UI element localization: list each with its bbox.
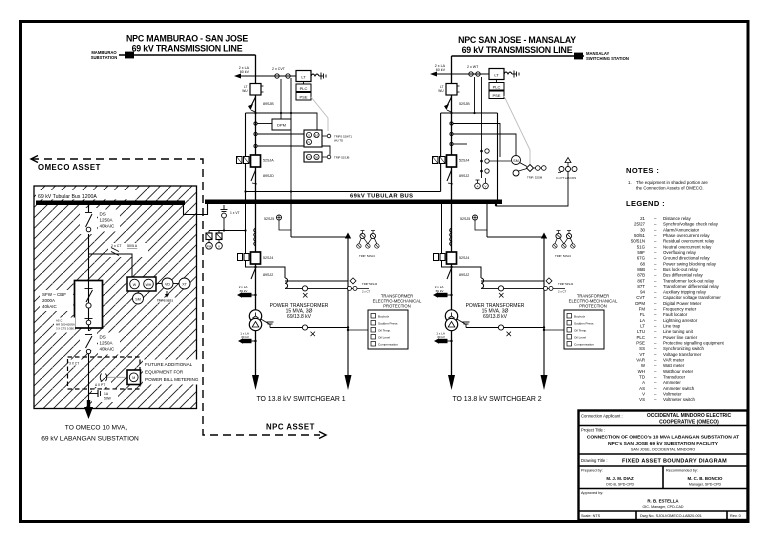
- svg-text:69/13.8 kV: 69/13.8 kV: [483, 314, 508, 320]
- svg-text:NPC's SAN JOSE 69 kV SUBSTATIO: NPC's SAN JOSE 69 kV SUBSTATION FACILITY: [608, 441, 719, 447]
- svg-text:WU: WU: [242, 89, 248, 93]
- CT coil on tie bay1: [285, 278, 288, 288]
- meter box pair bay2 lower: [434, 254, 439, 261]
- node: bay2 junction y113: [450, 112, 452, 114]
- svg-text:86T: 86T: [637, 278, 645, 283]
- disconnect switch 89SJA bay1: [251, 170, 274, 184]
- label: SFW-CBF rating: [40, 290, 73, 311]
- svg-text:VAR meter: VAR meter: [663, 358, 685, 363]
- CT on secondary run bay2: [498, 286, 503, 298]
- wire: inter-bay tie above bus: [246, 191, 441, 193]
- svg-text:Voltmeter switch: Voltmeter switch: [663, 397, 696, 402]
- circuit breaker 52SJA bay1: [251, 155, 275, 167]
- svg-text:A: A: [642, 380, 645, 385]
- wire: OMECO feeder vertical lower: [88, 328, 90, 404]
- svg-text:Line tuning unit: Line tuning unit: [663, 329, 694, 334]
- svg-text:87B: 87B: [637, 273, 645, 278]
- wire: bay1 link to protection branch: [291, 236, 348, 238]
- svg-text:Drawing Title :: Drawing Title :: [581, 458, 608, 463]
- wire: tap2 to relay: [257, 133, 304, 135]
- svg-text:Prepared by:: Prepared by:: [581, 469, 603, 473]
- svg-text:Frequency meter: Frequency meter: [663, 307, 697, 312]
- voltmeter V: [216, 231, 223, 250]
- svg-text:1250A: 1250A: [100, 218, 113, 223]
- node: bay2 tap 1: [450, 122, 453, 125]
- svg-text:NPC ASSET: NPC ASSET: [266, 423, 315, 432]
- svg-text:MR 300-600/5A: MR 300-600/5A: [56, 323, 75, 327]
- svg-text:30 kV: 30 kV: [437, 335, 446, 339]
- wave trap WT box bay1: [242, 84, 263, 96]
- svg-text:SUBSTATION: SUBSTATION: [91, 55, 118, 60]
- svg-text:3 x PT with FDS: 3 x PT with FDS: [556, 176, 576, 180]
- svg-text:PSE: PSE: [299, 94, 307, 99]
- wave trap WT box bay2: [438, 84, 459, 96]
- svg-text:21: 21: [307, 134, 311, 138]
- svg-text:25/27: 25/27: [634, 222, 646, 227]
- svg-text:Phase overcurrent relay: Phase overcurrent relay: [663, 233, 710, 238]
- wire: OMECO bus link to NPC bus: [184, 204, 208, 215]
- bus: 69kV tubular bus: [205, 200, 502, 205]
- wire: bay1 protection branch vertical: [347, 237, 349, 376]
- circuit breaker 52SJ4 bay2: [447, 252, 457, 264]
- CT pair on branch bay1: [347, 278, 378, 294]
- svg-text:TRIP 52SJ4: TRIP 52SJ4: [362, 282, 377, 286]
- PLC box bay1: [296, 84, 311, 92]
- svg-text:NPC MAMBURAO - SAN JOSE: NPC MAMBURAO - SAN JOSE: [126, 34, 248, 44]
- PSE box bay1: [296, 82, 311, 101]
- arrow: to OMECO Labangan substation: [84, 400, 93, 419]
- svg-text:DS: DS: [100, 335, 106, 340]
- svg-text:SWITCHING STATION: SWITCHING STATION: [586, 56, 629, 61]
- svg-text:XT: XT: [182, 282, 187, 286]
- surge arrester 1xLA 30kV bay2: [434, 331, 453, 343]
- svg-text:89SJB: 89SJB: [263, 102, 274, 106]
- surge arrester 2xLA bay1: [237, 285, 257, 298]
- svg-text:WH: WH: [146, 283, 152, 287]
- svg-text:OCCIDENTAL MINDORO ELECTRIC: OCCIDENTAL MINDORO ELECTRIC: [647, 413, 732, 419]
- power transformer T1: [249, 310, 261, 322]
- svg-text:50/51N: 50/51N: [631, 239, 645, 244]
- CVT pair bay2 (2 x WT): [467, 65, 482, 146]
- svg-text:TRIPS 52S1: TRIPS 52S1: [157, 299, 173, 303]
- svg-text:2 x CT: 2 x CT: [111, 244, 122, 248]
- svg-text:NPC SAN JOSE - MANSALAY: NPC SAN JOSE - MANSALAY: [458, 35, 576, 45]
- svg-text:Bucholz: Bucholz: [574, 315, 585, 319]
- svg-text:Distance relay: Distance relay: [663, 216, 692, 221]
- svg-text:DPM: DPM: [277, 123, 286, 128]
- wire: Mansalay 69kV line: [452, 55, 585, 57]
- title block: approved by cell: [581, 491, 684, 509]
- svg-text:2000A: 2000A: [42, 298, 55, 303]
- transformer mechanical protection box bay2: [543, 294, 618, 350]
- svg-text:TD: TD: [639, 375, 645, 380]
- svg-text:89SJ2: 89SJ2: [459, 174, 469, 178]
- disconnect switch DS 1250A upper: [80, 205, 120, 234]
- svg-text:SAN JOSE, OCCIDENTAL MINDORO: SAN JOSE, OCCIDENTAL MINDORO: [631, 448, 695, 452]
- svg-text:CVT: CVT: [636, 295, 645, 300]
- wire: PSE to relay (signal): [311, 97, 328, 131]
- svg-text:40kAIC: 40kAIC: [100, 224, 116, 229]
- line trap LT bay1: [296, 71, 326, 82]
- svg-text:68: 68: [640, 261, 645, 266]
- svg-text:LA: LA: [640, 318, 645, 323]
- svg-text:Lightning arrestor: Lightning arrestor: [663, 318, 698, 323]
- svg-text:POWER BILL METERING: POWER BILL METERING: [145, 377, 199, 382]
- svg-text:WH: WH: [638, 369, 645, 374]
- disconnect switch 89SJ2 bay1: [251, 268, 256, 279]
- wire: bay1 left vertical and CT tie: [246, 204, 286, 278]
- svg-text:21: 21: [640, 216, 645, 221]
- title block: scale dwg rev row: [581, 514, 741, 518]
- ammeter and voltmeter bay2: [475, 178, 489, 189]
- svg-text:52SJ4: 52SJ4: [459, 256, 469, 260]
- arrowhead on branch junction bay2: [541, 233, 547, 239]
- PSE box bay2: [489, 91, 504, 99]
- DPM box bay1: [272, 119, 291, 130]
- label: 69 kV Tubular Bus 1200A: [36, 190, 136, 200]
- wire: transformer neutral CT run bay2: [456, 319, 545, 337]
- wire: bay1 right vertical below bus: [290, 204, 292, 237]
- svg-text:86B: 86B: [637, 267, 645, 272]
- svg-text:Ground directional relay: Ground directional relay: [663, 256, 710, 261]
- wire: tap3 stub: [257, 146, 330, 155]
- wire: bay2 left vertical and CT tie: [442, 204, 482, 278]
- svg-text:WU: WU: [438, 89, 444, 93]
- svg-text:TRIP 52SJB: TRIP 52SJB: [334, 156, 349, 160]
- svg-text:Synchronizing switch: Synchronizing switch: [663, 346, 705, 351]
- wire: bay2 horizontal tie y113: [441, 112, 498, 114]
- svg-text:SM: SM: [513, 159, 518, 163]
- svg-text:Overfluxing relay: Overfluxing relay: [663, 250, 697, 255]
- svg-text:M: M: [132, 376, 135, 380]
- svg-text:Compensation: Compensation: [378, 343, 398, 347]
- svg-text:LT: LT: [494, 73, 499, 78]
- svg-text:69/13.8 kV: 69/13.8 kV: [287, 314, 312, 320]
- svg-text:LEGEND :: LEGEND :: [626, 199, 665, 208]
- svg-text:DPM: DPM: [635, 301, 645, 306]
- arrow: OMECO metering trip: [156, 291, 180, 303]
- svg-text:COOPERATIVE (OMECO): COOPERATIVE (OMECO): [659, 420, 719, 426]
- arrow: bay1 protection branch end: [345, 375, 352, 390]
- svg-text:Dwg No. SJOLI/OMECO-LAB20-001: Dwg No. SJOLI/OMECO-LAB20-001: [640, 514, 702, 518]
- svg-text:2 x CT: 2 x CT: [362, 290, 371, 294]
- svg-text:TRIP: 52SJ4: TRIP: 52SJ4: [359, 254, 375, 258]
- surge arrester 2xLA bay2: [433, 285, 453, 298]
- future metering dashed box: [68, 357, 141, 389]
- title block frame: [579, 411, 748, 521]
- disconnect switch 89SJA bay2: [447, 170, 469, 184]
- wire: bay2 main vertical below bus: [451, 204, 453, 376]
- node: bay1 tap 1: [254, 122, 257, 125]
- svg-text:2 x CVT: 2 x CVT: [272, 67, 286, 71]
- power transformer T2: [445, 310, 457, 322]
- svg-text:Alarm/Annunciator: Alarm/Annunciator: [663, 227, 700, 232]
- wire: bay1 main vertical from line to bus: [255, 55, 257, 202]
- wire: PT group to bus: [496, 172, 568, 207]
- svg-text:89SJ2: 89SJ2: [459, 273, 469, 277]
- svg-text:Transformer lock-out relay: Transformer lock-out relay: [663, 278, 715, 283]
- svg-text:Fault locator: Fault locator: [663, 312, 688, 317]
- wire: PSE bay2 to relay (signal): [504, 96, 530, 164]
- svg-text:Power line carrier: Power line carrier: [663, 335, 698, 340]
- wire: bay2 protection branch vertical: [543, 237, 545, 376]
- arrow: bay2 feeder to switchgear: [448, 375, 455, 390]
- meter box pair bay1 (VS AS): [237, 157, 250, 164]
- svg-text:30: 30: [640, 227, 645, 232]
- relay box 21 25/27 FL bay1: [304, 130, 352, 147]
- synchronizing switch diamond bay2: [527, 165, 547, 180]
- svg-text:NOTES :: NOTES :: [626, 166, 659, 175]
- svg-text:Approved by:: Approved by:: [581, 491, 603, 495]
- wire: bay1 horizontal tie y113: [246, 113, 318, 130]
- wire: tap2 bay2 to SM relay: [453, 134, 516, 155]
- svg-text:OIC-B, SPD-CPD: OIC-B, SPD-CPD: [606, 483, 635, 487]
- svg-text:Auxiliary tripping relay: Auxiliary tripping relay: [663, 290, 707, 295]
- CT stack bay2: [450, 228, 452, 246]
- svg-text:3 X CTS 0.3B0.1: 3 X CTS 0.3B0.1: [56, 327, 77, 331]
- svg-text:V: V: [218, 244, 220, 248]
- svg-text:87T: 87T: [637, 284, 645, 289]
- svg-text:TRIP: 52SJ4: TRIP: 52SJ4: [555, 254, 571, 258]
- svg-text:2 x CT: 2 x CT: [558, 290, 567, 294]
- svg-text:FL: FL: [307, 141, 311, 145]
- potential transformers 3xPT with FDS: [556, 158, 577, 181]
- frequency meter FM: [206, 231, 213, 250]
- meter box pair bay1 lower: [238, 254, 243, 261]
- svg-text:40kAIC: 40kAIC: [42, 304, 58, 309]
- potential device cluster bay2: [553, 231, 575, 259]
- svg-text:Compensation: Compensation: [574, 343, 594, 347]
- svg-text:PLC: PLC: [300, 86, 308, 91]
- svg-text:Voltage transformer: Voltage transformer: [663, 352, 702, 357]
- legend table: [631, 216, 725, 402]
- svg-text:89SJD: 89SJD: [263, 174, 274, 178]
- surge arrester 2xLA 60kV bay1: [234, 66, 256, 79]
- CT column bay2: [480, 146, 511, 178]
- wire: bay2 link to protection branch: [487, 236, 544, 238]
- svg-text:50/51: 50/51: [634, 233, 646, 238]
- arrow: bay1 feeder to switchgear: [252, 375, 259, 390]
- node: bus junctions: [223, 201, 489, 204]
- wire: bay2 right vertical below bus: [486, 204, 488, 237]
- svg-text:M. C. B. BONCIO: M. C. B. BONCIO: [688, 476, 723, 481]
- svg-text:25/27: 25/27: [314, 135, 321, 138]
- terminal to Mamburao substation: [125, 52, 134, 59]
- svg-text:Watt meter: Watt meter: [663, 363, 685, 368]
- voltage transformer 1xVT on bus: [221, 205, 240, 231]
- circuit breaker SFW-CBF 2000A: [75, 281, 103, 329]
- svg-text:69 kV TRANSMISSION LINE: 69 kV TRANSMISSION LINE: [132, 44, 243, 54]
- svg-text:2 x WT: 2 x WT: [467, 65, 479, 69]
- svg-text:Power swing blocking relay: Power swing blocking relay: [663, 261, 717, 266]
- svg-text:Oil Level: Oil Level: [574, 336, 586, 340]
- svg-text:Oil Level: Oil Level: [378, 336, 390, 340]
- svg-text:Capacitor voltage transformer: Capacitor voltage transformer: [663, 295, 721, 300]
- svg-text:Sudden Press: Sudden Press: [574, 322, 594, 326]
- svg-text:LTU: LTU: [637, 329, 645, 334]
- wire: OMECO metering tap: [89, 254, 133, 277]
- label: Mamburao Substation: [91, 50, 118, 60]
- svg-text:Bucholz: Bucholz: [378, 315, 389, 319]
- svg-text:Residual overcurrent relay: Residual overcurrent relay: [663, 239, 715, 244]
- svg-text:Synchro/voltage check relay: Synchro/voltage check relay: [663, 222, 719, 227]
- CT on secondary run bay1: [302, 286, 307, 298]
- svg-text:CONNECTION OF OMECO's 10 MVA L: CONNECTION OF OMECO's 10 MVA LABANGAN SU…: [587, 435, 739, 441]
- disconnect switch 89SJB bay1: [248, 97, 274, 112]
- svg-text:67G: 67G: [637, 256, 646, 261]
- svg-text:Connection Applicant :: Connection Applicant :: [581, 414, 623, 419]
- svg-text:Bus differential relay: Bus differential relay: [663, 273, 704, 278]
- wire: bay1 main vertical below bus: [255, 204, 257, 376]
- svg-text:SM: SM: [135, 297, 140, 301]
- svg-text:Digital Power Meter: Digital Power Meter: [663, 301, 702, 306]
- title: NPC Mamburao - San Jose transmission line: [126, 34, 248, 54]
- svg-text:Scale: NTS: Scale: NTS: [581, 514, 601, 518]
- svg-text:Transformer differential relay: Transformer differential relay: [663, 284, 720, 289]
- svg-text:WU TD: WU TD: [334, 139, 343, 143]
- svg-text:30: 30: [315, 156, 319, 160]
- svg-text:Voltmeter: Voltmeter: [663, 392, 682, 397]
- wire: bay1 line to line-trap: [256, 75, 297, 77]
- svg-text:PROTECTION: PROTECTION: [383, 304, 410, 309]
- disconnect switch 89SJ2 bay2: [447, 268, 452, 279]
- svg-text:Ammeter switch: Ammeter switch: [663, 386, 695, 391]
- metering cluster W WH VD XT OMECO: [127, 277, 190, 291]
- svg-text:69 kV TRANSMISSION LINE: 69 kV TRANSMISSION LINE: [462, 45, 573, 55]
- svg-text:52SJ4: 52SJ4: [459, 159, 469, 163]
- wire: VT metering tie: [209, 230, 246, 232]
- svg-text:Bus lock-out relay: Bus lock-out relay: [663, 267, 699, 272]
- svg-text:SFW – CBF: SFW – CBF: [42, 292, 66, 297]
- svg-text:3 X CT: 3 X CT: [69, 362, 79, 366]
- svg-text:SS: SS: [639, 346, 645, 351]
- svg-text:51G: 51G: [637, 244, 646, 249]
- svg-text:Recommended by:: Recommended by:: [666, 469, 698, 473]
- svg-text:VT: VT: [639, 352, 645, 357]
- wire: transformer neutral CT run bay1: [260, 319, 349, 337]
- surge arrester LA 50W OMECO: [89, 390, 119, 403]
- wire: bay2 line to line-trap: [452, 73, 490, 75]
- surge arrester 1xLA 30kV bay1: [238, 331, 257, 343]
- svg-text:Line trap: Line trap: [663, 324, 681, 329]
- relay SM bay2: [512, 156, 528, 177]
- title: NPC San Jose - Mansalay transmission line: [458, 35, 576, 55]
- node: bay2 tap 2: [450, 132, 453, 135]
- wire: Mamburao 69kV line: [119, 54, 256, 56]
- svg-text:AS: AS: [639, 386, 645, 391]
- line trap LT bay2: [489, 69, 519, 80]
- svg-text:FM: FM: [639, 307, 646, 312]
- svg-text:VD: VD: [165, 282, 170, 286]
- node: bay1 tap 3: [254, 144, 257, 147]
- CT coil on tie bay2: [481, 278, 484, 288]
- svg-text:52SJ4: 52SJ4: [263, 256, 273, 260]
- title block: prepared by cell: [581, 469, 634, 487]
- svg-text:52SJB: 52SJB: [459, 102, 470, 106]
- node: bay1 junction y113: [254, 112, 256, 114]
- OMECO hatched enclosure: [34, 186, 197, 409]
- PLC box bay2: [489, 80, 504, 91]
- svg-text:FUTURE ADDITIONAL: FUTURE ADDITIONAL: [145, 362, 193, 367]
- CT pair on branch bay2: [543, 278, 574, 294]
- svg-text:LT: LT: [640, 324, 645, 329]
- svg-text:Sudden Press: Sudden Press: [378, 322, 398, 326]
- svg-text:Rev. 0: Rev. 0: [730, 514, 741, 518]
- label: power transformer T2: [466, 303, 525, 320]
- disconnect switch DS 1250A lower: [80, 331, 120, 355]
- svg-text:The equipment in shaded portio: The equipment in shaded portion are: [636, 180, 708, 185]
- wire: bay2 left vertical to inter-bay tie: [440, 113, 442, 192]
- svg-text:Project Title :: Project Title :: [581, 428, 605, 433]
- svg-text:Neutral overcurrent relay: Neutral overcurrent relay: [663, 244, 712, 249]
- svg-text:Watthour meter: Watthour meter: [663, 369, 694, 374]
- svg-text:52SJA: 52SJA: [263, 159, 274, 163]
- wire: CT secondary lines bay2: [481, 280, 544, 282]
- svg-text:FM: FM: [207, 244, 212, 248]
- wire: tap1 bay2: [453, 124, 500, 158]
- svg-text:94: 94: [640, 290, 645, 295]
- svg-text:FL: FL: [640, 312, 646, 317]
- svg-text:TO 13.8 kV SWITCHGEAR 1: TO 13.8 kV SWITCHGEAR 1: [256, 396, 345, 403]
- svg-text:TO 13.8 kV SWITCHGEAR 2: TO 13.8 kV SWITCHGEAR 2: [452, 396, 541, 403]
- svg-text:V: V: [484, 185, 486, 189]
- svg-text:DS: DS: [100, 212, 106, 217]
- svg-text:67G: 67G: [307, 156, 312, 160]
- svg-text:PLC: PLC: [493, 84, 501, 89]
- potential device cluster bay1: [357, 231, 379, 259]
- svg-text:TRIP: 52SM: TRIP: 52SM: [527, 176, 543, 180]
- svg-text:69 kV Tubular Bus 1200A: 69 kV Tubular Bus 1200A: [38, 194, 97, 200]
- svg-text:VS: VS: [639, 397, 645, 402]
- svg-text:1250A: 1250A: [100, 341, 113, 346]
- svg-text:FIXED ASSET BOUNDARY DIAGRAM: FIXED ASSET BOUNDARY DIAGRAM: [622, 459, 727, 465]
- svg-text:69 kV: 69 kV: [436, 289, 445, 293]
- svg-text:30 kV: 30 kV: [241, 335, 250, 339]
- wire: tap3 bay2 stub: [453, 143, 467, 145]
- title block: connection applicant row: [581, 413, 732, 426]
- svg-text:59F: 59F: [637, 250, 645, 255]
- svg-text:A: A: [476, 185, 478, 189]
- node: bay2 tap 3: [450, 142, 453, 145]
- svg-text:Oil Temp.: Oil Temp.: [378, 329, 391, 333]
- svg-text:OIC- Manager, CPD-CAD: OIC- Manager, CPD-CAD: [643, 505, 684, 509]
- svg-text:W: W: [133, 283, 137, 287]
- svg-text:M. J. M. DIAZ: M. J. M. DIAZ: [606, 476, 634, 481]
- svg-text:OMECO ASSET: OMECO ASSET: [38, 163, 101, 172]
- svg-text:Protective signalling equipmen: Protective signalling equipment: [663, 341, 725, 346]
- label: Mansalay Switching Station: [586, 51, 629, 61]
- svg-text:69 kV: 69 kV: [240, 289, 249, 293]
- svg-text:R. B. ESTELLA: R. B. ESTELLA: [647, 499, 679, 504]
- terminal to Mansalay switching station: [574, 53, 583, 60]
- svg-text:40kAIC: 40kAIC: [100, 347, 116, 352]
- svg-text:AS C: AS C: [56, 319, 62, 323]
- label: future additional equipment: [143, 360, 199, 385]
- label: power transformer T1: [270, 303, 329, 320]
- disconnect switch 89SJB bay2: [444, 97, 470, 112]
- svg-text:69kV TUBULAR BUS: 69kV TUBULAR BUS: [350, 194, 413, 200]
- svg-text:Transducer: Transducer: [663, 375, 686, 380]
- current transformers 2xCT OMECO: [108, 243, 148, 257]
- svg-text:Δ X PT: Δ X PT: [95, 383, 105, 387]
- svg-text:PLC: PLC: [636, 335, 645, 340]
- svg-text:60 kV: 60 kV: [436, 68, 446, 72]
- svg-text:TO OMECO 10 MVA,: TO OMECO 10 MVA,: [65, 425, 128, 432]
- transformer mechanical protection box bay1: [347, 294, 422, 350]
- svg-text:LT: LT: [301, 75, 306, 80]
- svg-text:52SJ5: 52SJ5: [460, 217, 470, 221]
- CT stack bay1: [254, 228, 256, 246]
